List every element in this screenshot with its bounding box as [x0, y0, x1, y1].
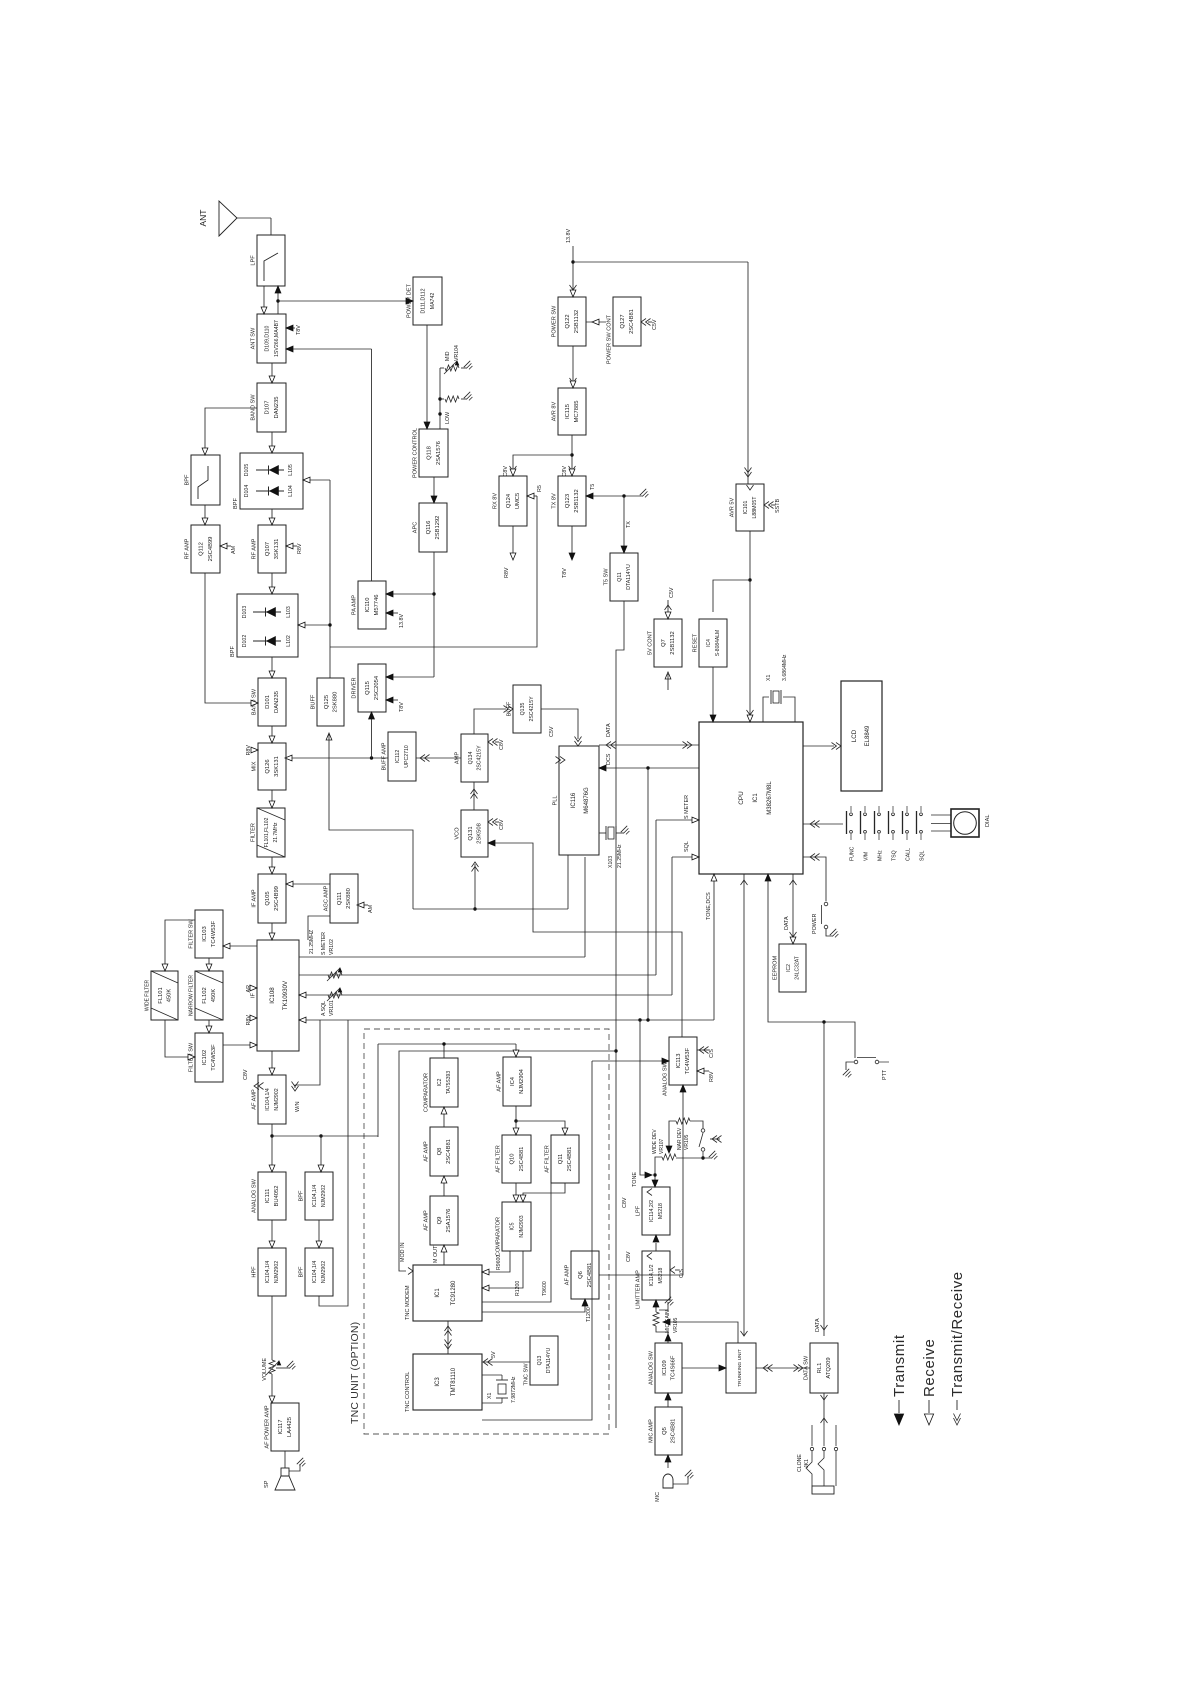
svg-text:C8V: C8V [499, 819, 505, 830]
svg-text:T5 SW: T5 SW [604, 568, 610, 586]
svg-text:AM: AM [231, 545, 237, 554]
svg-text:M OUT: M OUT [433, 1245, 439, 1263]
svg-text:BUFF: BUFF [311, 694, 317, 709]
svg-text:NJM2902: NJM2902 [321, 1261, 327, 1283]
svg-text:TK10930V: TK10930V [282, 980, 289, 1010]
svg-text:T5: T5 [590, 484, 596, 490]
svg-text:Q10: Q10 [510, 1154, 516, 1165]
svg-text:Q123: Q123 [565, 494, 571, 508]
svg-text:Q125: Q125 [324, 695, 330, 709]
svg-text:IC116: IC116 [571, 792, 577, 808]
svg-text:L103: L103 [286, 606, 292, 618]
svg-text:IC114,1/2: IC114,1/2 [649, 1264, 655, 1286]
svg-text:IC4: IC4 [706, 639, 712, 647]
svg-text:NJM2904: NJM2904 [519, 1068, 525, 1094]
svg-text:Q135: Q135 [520, 703, 526, 716]
svg-text:PTT: PTT [882, 1069, 888, 1080]
svg-text:C8V: C8V [503, 466, 509, 477]
svg-text:1SV266,MA4B7: 1SV266,MA4B7 [274, 320, 280, 357]
svg-text:DCS: DCS [606, 753, 612, 765]
svg-text:AF AMP: AF AMP [424, 1141, 430, 1162]
svg-text:RESET: RESET [693, 633, 699, 652]
svg-text:DTA114YU: DTA114YU [546, 1348, 552, 1374]
svg-text:450K: 450K [211, 989, 217, 1003]
svg-text:2SB1132: 2SB1132 [574, 310, 580, 333]
svg-text:C8V: C8V [243, 1069, 249, 1080]
svg-text:POWER SW CONT: POWER SW CONT [607, 314, 613, 364]
svg-text:POWER CONTROL: POWER CONTROL [413, 428, 419, 478]
svg-text:Q126: Q126 [265, 759, 271, 773]
svg-text:C/S: C/S [679, 1269, 685, 1278]
svg-text:VR107: VR107 [659, 1138, 665, 1154]
svg-text:VR102: VR102 [329, 939, 335, 955]
svg-text:TRUNKING UNIT: TRUNKING UNIT [737, 1349, 743, 1387]
svg-text:POWER SW: POWER SW [552, 305, 558, 337]
svg-text:FUNC: FUNC [849, 846, 855, 861]
svg-text:AF AMP: AF AMP [424, 1210, 430, 1231]
svg-text:IC117: IC117 [278, 1419, 284, 1434]
svg-text:TNC MODEM: TNC MODEM [405, 1285, 411, 1320]
svg-text:VR105: VR105 [673, 1317, 679, 1333]
svg-text:Q5: Q5 [662, 1427, 668, 1435]
svg-text:SQL: SQL [684, 841, 690, 852]
svg-text:DIAL: DIAL [985, 815, 991, 827]
svg-text:DATA: DATA [815, 1318, 821, 1332]
svg-text:JK1: JK1 [804, 1459, 810, 1468]
svg-text:RX 8V: RX 8V [493, 493, 499, 509]
svg-text:MIC GAIN: MIC GAIN [665, 1310, 671, 1333]
svg-text:BAND SW: BAND SW [251, 394, 257, 421]
svg-text:7.9872MHz: 7.9872MHz [511, 1376, 517, 1403]
svg-text:ANT: ANT [198, 210, 208, 227]
svg-text:IC103: IC103 [202, 926, 208, 941]
svg-text:2SB1132: 2SB1132 [574, 489, 580, 512]
svg-text:R8V: R8V [709, 1071, 715, 1082]
svg-text:NJM2902: NJM2902 [321, 1185, 327, 1207]
svg-text:BU4052: BU4052 [274, 1186, 280, 1207]
svg-text:FILTER: FILTER [251, 823, 257, 842]
svg-text:2SC4B81: 2SC4B81 [567, 1147, 573, 1172]
svg-text:Q118: Q118 [427, 446, 433, 460]
svg-text:M5218: M5218 [658, 1267, 664, 1283]
svg-text:M5218: M5218 [658, 1203, 664, 1219]
svg-text:BPF: BPF [299, 1266, 305, 1277]
svg-text:2SC4B81: 2SC4B81 [629, 309, 635, 334]
svg-text:ATQ209: ATQ209 [826, 1357, 832, 1378]
svg-text:TC91280: TC91280 [451, 1280, 457, 1305]
svg-text:COMPARATOR: COMPARATOR [496, 1217, 502, 1256]
svg-text:5V CONT: 5V CONT [648, 630, 654, 655]
svg-text:IC109: IC109 [662, 1360, 668, 1375]
svg-text:DAN235: DAN235 [274, 397, 280, 419]
svg-text:2SC4B81: 2SC4B81 [519, 1147, 525, 1172]
svg-text:R9600: R9600 [496, 1255, 502, 1270]
svg-text:SP: SP [264, 1480, 270, 1488]
svg-text:T8V: T8V [562, 568, 568, 578]
svg-text:AGC AMP: AGC AMP [324, 885, 330, 911]
svg-text:IC102: IC102 [202, 1050, 208, 1065]
svg-text:IC104,1/4: IC104,1/4 [312, 1261, 318, 1284]
svg-text:SQL: SQL [919, 851, 925, 861]
svg-text:TC4S66F: TC4S66F [670, 1355, 676, 1380]
svg-text:X103: X103 [608, 856, 614, 868]
svg-text:L105: L105 [288, 464, 294, 476]
svg-text:2SK880: 2SK880 [332, 692, 338, 713]
svg-text:TNC SW: TNC SW [524, 1363, 530, 1386]
svg-text:Q6: Q6 [578, 1271, 584, 1279]
svg-text:MOD IN: MOD IN [400, 1242, 406, 1262]
svg-text:21.25MHz: 21.25MHz [617, 844, 623, 868]
svg-text:IC104,1/4: IC104,1/4 [312, 1185, 318, 1208]
svg-text:NARROW FILTER: NARROW FILTER [189, 975, 195, 1016]
svg-text:L102: L102 [286, 635, 292, 647]
svg-text:X1: X1 [766, 675, 772, 681]
svg-text:HPF: HPF [252, 1266, 258, 1278]
svg-text:AVR 5V: AVR 5V [730, 497, 736, 517]
svg-text:TX 8V: TX 8V [552, 493, 558, 509]
svg-text:ANALOG SW: ANALOG SW [649, 1350, 655, 1385]
svg-text:AF AMP: AF AMP [497, 1071, 503, 1092]
svg-text:TMT81110: TMT81110 [451, 1367, 457, 1396]
svg-text:2SC4B99: 2SC4B99 [208, 537, 214, 562]
svg-text:3SK131: 3SK131 [274, 539, 280, 560]
svg-text:C5V: C5V [669, 587, 675, 598]
svg-text:MID: MID [445, 351, 451, 361]
svg-text:VR101: VR101 [329, 1000, 335, 1016]
svg-text:TONE: TONE [632, 1172, 638, 1187]
svg-text:MIC AMP: MIC AMP [649, 1419, 655, 1443]
svg-text:C8V: C8V [622, 1197, 628, 1208]
svg-text:AF POWER AMP: AF POWER AMP [265, 1405, 271, 1448]
svg-text:IC1: IC1 [753, 793, 759, 803]
svg-text:Q124: Q124 [506, 493, 512, 508]
svg-text:NJM2903: NJM2903 [519, 1215, 525, 1237]
svg-text:LIMITTER AMP: LIMITTER AMP [636, 1270, 642, 1309]
svg-text:M64876G: M64876G [584, 787, 590, 814]
svg-text:VOLUME: VOLUME [262, 1358, 268, 1381]
svg-text:NJM2902: NJM2902 [274, 1261, 280, 1283]
svg-text:IC111: IC111 [265, 1189, 271, 1204]
svg-text:D103: D103 [242, 606, 248, 619]
svg-text:Transmit: Transmit [891, 1334, 908, 1397]
svg-text:Q105: Q105 [265, 891, 271, 905]
svg-text:2SC4B81: 2SC4B81 [446, 1139, 452, 1164]
svg-text:L104: L104 [288, 485, 294, 497]
svg-text:DATA: DATA [606, 723, 612, 737]
svg-text:FILTER SW: FILTER SW [189, 919, 195, 949]
svg-text:AF FILTER: AF FILTER [545, 1145, 551, 1173]
svg-text:AF AMP: AF AMP [565, 1264, 571, 1285]
svg-text:450K: 450K [166, 989, 172, 1003]
svg-text:Q127: Q127 [620, 314, 626, 328]
svg-text:LA4425: LA4425 [287, 1417, 293, 1437]
svg-text:RL1: RL1 [817, 1363, 823, 1374]
svg-text:Q112: Q112 [199, 542, 205, 556]
svg-text:T8V: T8V [296, 325, 302, 335]
svg-text:IC104,1/4: IC104,1/4 [265, 1261, 271, 1284]
svg-text:C8V: C8V [499, 739, 505, 750]
svg-text:IC115: IC115 [565, 404, 571, 419]
svg-text:WIDE FILTER: WIDE FILTER [145, 979, 151, 1011]
svg-text:2SB1132: 2SB1132 [670, 631, 676, 654]
svg-text:TX: TX [626, 521, 632, 528]
svg-text:Q13: Q13 [537, 1355, 543, 1365]
svg-text:LOW: LOW [445, 412, 451, 424]
svg-text:Q115: Q115 [365, 681, 371, 695]
svg-text:24LC32AT: 24LC32AT [794, 956, 800, 980]
svg-text:IC113: IC113 [676, 1053, 682, 1068]
svg-text:RF AMP: RF AMP [185, 538, 191, 559]
svg-text:TNC CONTROL: TNC CONTROL [405, 1372, 411, 1412]
svg-text:Q131: Q131 [468, 826, 474, 840]
svg-text:W/N: W/N [295, 1101, 301, 1112]
svg-text:D111,D112: D111,D112 [421, 288, 427, 313]
svg-text:2SK880: 2SK880 [346, 888, 352, 909]
svg-text:DTA114YU: DTA114YU [626, 564, 632, 590]
svg-text:EL8849: EL8849 [865, 725, 871, 746]
svg-text:2SC2054: 2SC2054 [374, 675, 380, 700]
svg-text:2SC4215Y: 2SC4215Y [476, 745, 482, 771]
svg-text:PLL: PLL [553, 796, 559, 806]
svg-text:C/S: C/S [709, 1049, 715, 1058]
svg-text:R5: R5 [537, 485, 543, 492]
svg-text:2SC4B99: 2SC4B99 [274, 886, 280, 911]
svg-text:13.8V: 13.8V [399, 614, 405, 628]
svg-text:SSTB: SSTB [775, 499, 781, 513]
svg-text:IC108: IC108 [269, 987, 276, 1004]
svg-text:IC2: IC2 [786, 964, 792, 972]
svg-text:IC2: IC2 [437, 1078, 443, 1086]
svg-text:Q11: Q11 [617, 572, 623, 582]
svg-text:IC101: IC101 [743, 500, 749, 514]
svg-text:BPF: BPF [233, 498, 239, 509]
svg-text:R8V: R8V [297, 543, 303, 554]
svg-text:CLONE: CLONE [797, 1454, 803, 1472]
svg-text:D105: D105 [244, 464, 250, 477]
svg-text:Q122: Q122 [565, 314, 571, 328]
svg-text:TC4W53F: TC4W53F [211, 1044, 217, 1071]
svg-text:POWER: POWER [812, 914, 818, 934]
svg-text:AF FILTER: AF FILTER [496, 1145, 502, 1173]
svg-text:C5V: C5V [549, 726, 555, 737]
svg-text:M57746: M57746 [374, 595, 380, 616]
svg-text:T1200: T1200 [586, 1307, 592, 1322]
svg-text:Q7: Q7 [661, 639, 667, 647]
svg-text:T8V: T8V [399, 702, 405, 712]
svg-text:ANALOG SW: ANALOG SW [252, 1178, 258, 1213]
svg-text:WIDE DEV: WIDE DEV [652, 1129, 658, 1154]
svg-text:UPC2710: UPC2710 [404, 745, 410, 768]
svg-text:MIX: MIX [252, 761, 258, 771]
svg-text:2SA1576: 2SA1576 [436, 441, 442, 465]
svg-text:3.6864MHz: 3.6864MHz [782, 654, 788, 681]
svg-text:IC4: IC4 [510, 1076, 516, 1086]
svg-text:IC3: IC3 [435, 1377, 441, 1387]
svg-text:NJM2902: NJM2902 [274, 1088, 280, 1110]
svg-text:AVR 8V: AVR 8V [552, 401, 558, 421]
svg-text:DATA: DATA [784, 916, 790, 930]
svg-text:EEPROM: EEPROM [773, 956, 779, 981]
svg-text:VR105: VR105 [684, 1134, 690, 1150]
svg-text:CALL: CALL [905, 848, 911, 861]
svg-text:5V: 5V [491, 1351, 497, 1358]
svg-text:IF AMP: IF AMP [252, 889, 258, 908]
svg-text:BPF: BPF [299, 1190, 305, 1201]
svg-text:D104: D104 [244, 485, 250, 498]
svg-text:S METER: S METER [684, 795, 690, 819]
svg-text:D101: D101 [265, 695, 271, 709]
svg-text:2SA1576: 2SA1576 [446, 1209, 452, 1233]
svg-text:ANT SW: ANT SW [251, 327, 257, 349]
svg-text:D109,D110: D109,D110 [265, 325, 271, 351]
svg-text:X1: X1 [487, 1393, 493, 1399]
svg-text:APC: APC [413, 522, 419, 534]
svg-text:R1200: R1200 [515, 1281, 521, 1296]
svg-text:3SK131: 3SK131 [274, 756, 280, 777]
svg-text:NAR DEV: NAR DEV [677, 1127, 683, 1150]
svg-text:TNC UNIT (OPTION): TNC UNIT (OPTION) [349, 1322, 361, 1424]
svg-text:Receive: Receive [921, 1339, 938, 1397]
svg-text:D107: D107 [265, 401, 271, 415]
svg-text:2SC4215Y: 2SC4215Y [529, 696, 535, 722]
svg-text:21.7MHz: 21.7MHz [273, 822, 279, 843]
svg-text:Q8: Q8 [437, 1148, 443, 1156]
svg-text:Q9: Q9 [437, 1217, 443, 1225]
svg-text:MHz: MHz [877, 850, 883, 861]
svg-text:MIC: MIC [655, 1492, 661, 1502]
svg-text:COMPARATOR: COMPARATOR [424, 1073, 430, 1112]
svg-text:R8V: R8V [504, 567, 510, 578]
svg-text:LPF: LPF [636, 1205, 642, 1216]
svg-text:MA742: MA742 [430, 293, 436, 310]
svg-text:C8V: C8V [626, 1251, 632, 1262]
svg-text:PA AMP: PA AMP [352, 595, 358, 615]
svg-text:S METER: S METER [321, 932, 327, 955]
svg-text:T9600: T9600 [542, 1281, 548, 1296]
svg-text:2SB1292: 2SB1292 [435, 516, 441, 540]
svg-text:VCO: VCO [455, 827, 461, 840]
svg-text:LPF: LPF [251, 255, 257, 266]
svg-text:BUFF AMP: BUFF AMP [382, 742, 388, 770]
svg-text:21.25MHZ: 21.25MHZ [309, 930, 315, 954]
svg-text:IC5: IC5 [510, 1222, 516, 1230]
svg-text:A SQL: A SQL [321, 1001, 327, 1016]
svg-text:TC4W53F: TC4W53F [685, 1047, 691, 1074]
svg-text:AM: AM [368, 904, 374, 913]
svg-text:IC110: IC110 [365, 597, 371, 612]
svg-text:Transmit/Receive: Transmit/Receive [949, 1271, 966, 1397]
svg-text:AF AMP: AF AMP [252, 1089, 258, 1110]
svg-text:DRIVER: DRIVER [352, 677, 358, 698]
svg-text:L88M05T: L88M05T [752, 496, 758, 519]
svg-text:MC7885: MC7885 [574, 401, 580, 423]
svg-text:DAN235: DAN235 [274, 691, 280, 713]
svg-text:Q107: Q107 [265, 542, 271, 556]
svg-text:IC114,2/2: IC114,2/2 [649, 1200, 655, 1222]
svg-text:LCD: LCD [851, 729, 858, 742]
svg-text:M38267M8L: M38267M8L [767, 781, 773, 815]
svg-text:FL101,FL102: FL101,FL102 [264, 817, 270, 847]
svg-text:FL101: FL101 [158, 987, 164, 1003]
svg-text:D102: D102 [242, 635, 248, 648]
svg-text:RF AMP: RF AMP [252, 538, 258, 559]
svg-text:TC4W53F: TC4W53F [211, 920, 217, 947]
svg-text:Q111: Q111 [337, 892, 343, 905]
svg-text:BPF: BPF [185, 474, 191, 485]
svg-text:2SK508: 2SK508 [476, 823, 482, 844]
svg-text:IC112: IC112 [395, 750, 401, 764]
svg-text:Q116: Q116 [426, 521, 432, 535]
svg-text:Q134: Q134 [468, 752, 474, 765]
svg-text:2SC4B81: 2SC4B81 [670, 1419, 676, 1444]
svg-text:TSQ: TSQ [891, 850, 897, 861]
svg-text:IC1: IC1 [435, 1288, 441, 1298]
svg-text:S-8084ALM: S-8084ALM [715, 630, 721, 656]
svg-text:IC104,1/4: IC104,1/4 [265, 1088, 271, 1111]
svg-text:FL102: FL102 [202, 987, 208, 1003]
svg-text:CPU: CPU [738, 791, 745, 805]
svg-text:BPF: BPF [230, 646, 236, 657]
svg-text:TA75S393: TA75S393 [446, 1071, 452, 1094]
svg-text:V/M: V/M [863, 852, 869, 861]
svg-text:13.8V: 13.8V [566, 229, 572, 243]
svg-text:C8V: C8V [562, 466, 568, 477]
svg-text:C5V: C5V [652, 319, 658, 330]
svg-text:ANALOG SW: ANALOG SW [663, 1061, 669, 1096]
svg-text:TONE,DCS: TONE,DCS [706, 892, 712, 920]
svg-text:Q11: Q11 [558, 1154, 564, 1165]
svg-text:VR104: VR104 [454, 345, 460, 361]
svg-text:UMC5: UMC5 [515, 493, 521, 509]
